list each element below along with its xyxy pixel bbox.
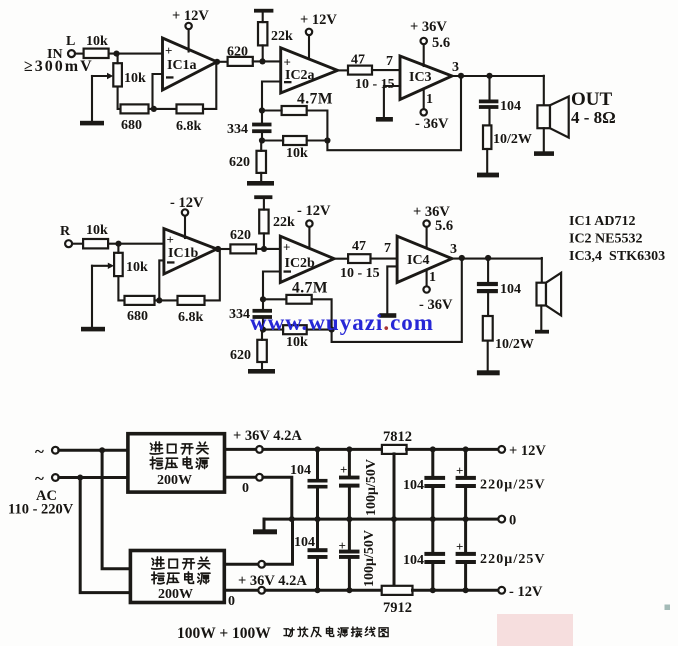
svg-text:620: 620 (227, 45, 248, 60)
node 680/6.8k junction R (156, 297, 162, 303)
svg-text:100W + 100W: 100W + 100W (177, 625, 271, 642)
capacitor 100u/50V (top) (339, 449, 379, 519)
resistor 680 (R) (125, 296, 155, 324)
ground (L pot wiper) (80, 121, 104, 126)
svg-text:5.6: 5.6 (432, 35, 450, 51)
ground (speaker R) (535, 330, 549, 334)
node 220u tap (12V) (463, 446, 469, 452)
svg-text:100μ/50V: 100μ/50V (364, 459, 379, 516)
svg-text:L: L (66, 34, 75, 49)
node R input junction (115, 241, 121, 247)
node IC3 output (458, 73, 464, 79)
terminal AC bottom (35, 469, 59, 488)
svg-text:OUT: OUT (571, 89, 613, 110)
node 680/6.8k junction (151, 106, 157, 112)
svg-text:- 12V: - 12V (509, 584, 543, 600)
svg-text:+ 36V 4.2A: + 36V 4.2A (233, 428, 302, 444)
node 100u joins -36 rail (346, 587, 352, 593)
node 620/22k junction R (261, 246, 267, 252)
ground (flipped, above 22k R) (254, 195, 272, 199)
wire PSU2 lower out (224, 589, 258, 592)
svg-text:IC1b: IC1b (168, 246, 199, 261)
wire (IC2b inverting input) (263, 272, 280, 300)
capacitor 104 (L zobel) (479, 76, 521, 126)
node L input junction (113, 51, 119, 57)
caption 100W+100W amplifier and power wiring diagram (177, 625, 388, 642)
svg-text:220μ/25V: 220μ/25V (480, 478, 546, 493)
svg-text:7912: 7912 (383, 600, 412, 616)
op-amp IC2b (280, 236, 334, 282)
power +12V (IC1a) (172, 8, 209, 52)
svg-text:~: ~ (35, 469, 44, 488)
node 100u tap (346, 446, 352, 452)
node PSU1-0 joins rail (289, 516, 295, 522)
svg-text:www.wuyazi.com: www.wuyazi.com (250, 310, 434, 335)
svg-text:10 - 15: 10 - 15 (355, 77, 395, 92)
capacitor 104 (-12V) (403, 519, 445, 590)
ground (IC4 pins 10-15) (379, 266, 397, 317)
svg-text:IC4: IC4 (407, 253, 430, 268)
node 220u (neg 12V) (463, 587, 469, 593)
resistor 10k (L lower feedback) (262, 136, 327, 161)
wire AC top branch down to PSU2 (102, 450, 130, 569)
wire output rail R (452, 258, 542, 260)
svg-text:IC3: IC3 (409, 70, 432, 85)
svg-text:10 - 15: 10 - 15 (340, 266, 380, 281)
svg-text:104: 104 (290, 463, 311, 478)
resistor 6.8k (L feedback) (176, 104, 203, 134)
terminal PSU2 upper (258, 561, 265, 568)
svg-text:+ 12V: + 12V (300, 12, 337, 28)
wire -36V rail (265, 589, 382, 592)
power -12V (IC2b) (297, 203, 331, 247)
power -12V (IC1b) (170, 195, 204, 238)
terminal AC top (35, 442, 59, 461)
svg-text:47: 47 (352, 239, 366, 254)
svg-text:+ 36V: + 36V (410, 19, 447, 35)
resistor 10k (R input) (83, 223, 108, 248)
terminal 0 (PSU1) (242, 474, 263, 496)
resistor 620 (L shunt) (229, 141, 266, 182)
power supply module PSU2 200W (130, 551, 224, 603)
svg-text:3: 3 (452, 60, 459, 75)
svg-text:10k: 10k (86, 34, 108, 49)
terminal +36V (PSU1) (256, 446, 263, 453)
svg-text:- 36V: - 36V (415, 116, 449, 132)
capacitor 334 (R) (229, 299, 272, 329)
ground (flipped, above 22k L) (254, 9, 273, 13)
node 220u joins rail (463, 516, 469, 522)
svg-text:6.8k: 6.8k (176, 119, 202, 134)
capacitor 220u/25V (+12V) (456, 449, 546, 519)
svg-text:+ 36V 4.2A: + 36V 4.2A (238, 573, 307, 589)
capacitor 104 (+12V) (403, 449, 445, 519)
terminal IN L (24, 34, 94, 75)
node zobel tap (486, 73, 492, 79)
svg-text:0: 0 (509, 513, 516, 529)
speaker OUT L (537, 76, 615, 152)
svg-text:+: + (167, 232, 174, 247)
svg-text:0: 0 (242, 481, 249, 496)
svg-text:7812: 7812 (383, 429, 412, 445)
op-amp IC3 (400, 56, 452, 100)
terminal -12V (498, 584, 543, 600)
svg-text:680: 680 (127, 309, 148, 324)
wire PSU1 0 out (225, 476, 257, 479)
svg-text:5.6: 5.6 (435, 218, 453, 234)
terminal R (60, 224, 72, 247)
resistor 680 (L) (121, 104, 149, 133)
resistor 10/2W (L zobel) (483, 125, 532, 172)
svg-text:1: 1 (426, 92, 433, 107)
speaker OUT R (537, 258, 562, 330)
wire 4.7M right lead (307, 111, 328, 141)
resistor 22k (L) (258, 12, 293, 62)
svg-text:334: 334 (229, 307, 250, 322)
svg-text:10/2W: 10/2W (493, 132, 532, 147)
node 334/10k R (260, 327, 266, 333)
wire L feedback from IC3 output (327, 76, 461, 150)
wire (IC1a inverting input) (153, 74, 163, 109)
svg-text:IC2a: IC2a (285, 68, 315, 83)
node inverting/4.7M R (260, 296, 266, 302)
wire IC2a out (338, 69, 348, 71)
wire (256, 248, 280, 250)
svg-text:0: 0 (228, 594, 235, 609)
label IC types (569, 214, 665, 264)
svg-text:104: 104 (500, 282, 521, 297)
wire AC bottom branch down to PSU2 (80, 478, 130, 593)
power +36V (IC3) (410, 19, 450, 66)
svg-text:10k: 10k (86, 223, 108, 238)
svg-text:+: + (339, 538, 346, 553)
svg-text:104: 104 (500, 99, 521, 114)
resistor 620 (R coupling) (230, 228, 256, 253)
wire output rail L (452, 75, 544, 77)
ground (R 620) (248, 369, 275, 374)
node IC1b output (215, 246, 221, 252)
svg-text:+ 12V: + 12V (509, 443, 546, 459)
resistor 4.7M (L) (282, 91, 333, 116)
capacitor 104 (R zobel) (477, 258, 521, 316)
svg-text:4.7M: 4.7M (292, 280, 328, 297)
resistor 22k (R) (259, 199, 295, 249)
ground (speaker L) (534, 151, 554, 156)
wire (IC1b inverting input) (159, 260, 164, 300)
wire (75, 53, 84, 55)
svg-text:+: + (456, 539, 463, 554)
resistor 4.7M (R) (286, 280, 328, 304)
wire pot wiper down (91, 76, 93, 121)
wire 4.7M right lead R (312, 299, 332, 329)
capacitor 334 (L) (227, 111, 272, 141)
capacitor 220u/25V (-12V) (456, 519, 546, 590)
ground (R pot wiper) (81, 327, 105, 332)
node 10k/4.7M/feedback (324, 137, 330, 143)
svg-text:- 12V: - 12V (170, 195, 204, 211)
svg-text:220μ/25V: 220μ/25V (480, 552, 546, 567)
wire R feedback from IC4 output (332, 258, 462, 342)
node 100u bottom (346, 516, 352, 522)
potentiometer 10k (R) (92, 244, 148, 301)
svg-text:620: 620 (230, 348, 251, 363)
op-amp IC4 (397, 236, 452, 282)
potentiometer 10k (L) (92, 54, 146, 109)
power +36V (IC4) (413, 204, 453, 248)
ground (IC3 pins 10-15) (376, 86, 400, 122)
wire (218, 248, 230, 250)
terminal PSU2 lower (228, 587, 265, 609)
wire PSU1 0 to mid rail (263, 477, 292, 519)
wire to IC3 pin 7 (372, 69, 400, 71)
svg-text:IC2 NE5532: IC2 NE5532 (569, 232, 643, 247)
wire (72, 243, 83, 245)
node 104 tap (315, 446, 321, 452)
power supply module PSU1 200W (128, 434, 225, 492)
wire (155, 299, 178, 301)
svg-text:7: 7 (386, 54, 393, 69)
node 10k/4.7M/feedback R (329, 327, 335, 333)
wire (253, 60, 281, 62)
node 104(12V) joins rail (430, 516, 436, 522)
wire -12V rail (413, 589, 499, 592)
resistor 10k (R lower feedback) (263, 325, 332, 350)
svg-text:4 - 8Ω: 4 - 8Ω (571, 108, 616, 127)
node AC bottom branch (77, 475, 83, 481)
node 104 tap (12V) (430, 446, 436, 452)
svg-text:200W: 200W (158, 587, 193, 602)
wire (149, 108, 177, 110)
node IC4 output (459, 255, 465, 261)
svg-text:+: + (456, 463, 463, 478)
wire 4.7M left lead (262, 109, 282, 111)
svg-text:IC1a: IC1a (167, 58, 197, 73)
power -36V (IC3 pin 1) (415, 89, 449, 133)
ground (L 620) (247, 181, 274, 186)
svg-text:+: + (283, 240, 290, 255)
svg-text:1: 1 (429, 270, 436, 285)
terminal 0 (right) (498, 513, 516, 529)
resistor 47 (L) (348, 53, 372, 75)
svg-text:IC1 AD712: IC1 AD712 (569, 214, 636, 229)
svg-text:10k: 10k (286, 146, 308, 161)
svg-text:~: ~ (35, 442, 44, 461)
terminal +12V (498, 443, 546, 459)
stray teal mark (665, 605, 671, 611)
svg-text:334: 334 (227, 122, 248, 137)
resistor 620 (L coupling) (227, 45, 253, 66)
svg-text:IC2b: IC2b (285, 256, 316, 271)
svg-text:10k: 10k (124, 71, 146, 86)
node 620/22k junction (259, 58, 265, 64)
node 104 (neg 12V) (430, 587, 436, 593)
svg-text:+: + (165, 43, 172, 58)
watermark remnant pink box (497, 614, 573, 646)
svg-text:620: 620 (230, 228, 251, 243)
node 104 joins -36 rail (315, 587, 321, 593)
wire IC2b out (334, 258, 348, 260)
capacitor 104 (36V bottom) (294, 519, 328, 590)
svg-text:110 - 220V: 110 - 220V (8, 502, 74, 518)
wire PSU2 upper to 0V rail (265, 519, 292, 564)
node zobel tap R (485, 255, 491, 261)
node 334/10k (259, 137, 265, 143)
wire PSU2 upper out (224, 563, 258, 566)
op-amp IC2a (281, 48, 338, 93)
svg-text:47: 47 (351, 53, 365, 68)
label AC 110-220V (8, 488, 74, 518)
svg-text:620: 620 (229, 155, 250, 170)
resistor 620 (R shunt) (230, 330, 267, 370)
wire 6.8k to IC1b output (205, 249, 220, 300)
wire +12V rail (407, 448, 499, 451)
wire AC bottom to PSU1 (59, 476, 128, 479)
svg-text:200W: 200W (157, 473, 192, 488)
regulator 7812 (382, 429, 412, 454)
power -36V (IC4 pin 1) (419, 270, 453, 313)
wire 6.8k to IC1a output (203, 62, 216, 109)
wire AC top to PSU1 (59, 449, 128, 452)
node IC1a output (214, 59, 220, 65)
node inverting/4.7M (259, 107, 265, 113)
resistor 47 (R) (348, 239, 370, 263)
svg-text:+: + (340, 462, 347, 477)
svg-text:10k: 10k (286, 335, 308, 350)
wire regulator ground pin (393, 454, 396, 586)
wire PSU1 +36V out (225, 448, 257, 451)
wire pot wiper down (91, 266, 93, 327)
svg-text:- 12V: - 12V (297, 203, 331, 219)
wire 4.7M left lead R (263, 298, 286, 300)
svg-text:100μ/50V: 100μ/50V (362, 530, 377, 587)
wire to IC4 pin 7 (371, 258, 398, 260)
power +12V (IC2a) (300, 12, 337, 58)
ground (L zobel) (477, 173, 499, 178)
svg-text:+ 12V: + 12V (172, 8, 209, 24)
svg-text:6.8k: 6.8k (178, 310, 204, 325)
ground (0V rail) (253, 519, 277, 534)
node 104 bottom (315, 516, 321, 522)
svg-text:3: 3 (450, 242, 457, 257)
wire +36V rail to 7812 (263, 448, 382, 451)
wire 0V mid rail (264, 518, 498, 521)
svg-text:≥300mV: ≥300mV (24, 58, 94, 75)
node AC top branch (99, 447, 105, 453)
resistor 6.8k (R feedback) (178, 296, 205, 325)
svg-text:680: 680 (121, 118, 142, 133)
wire (IC2a inverting input) (262, 82, 281, 111)
capacitor 100u/50V (bottom) (339, 519, 378, 590)
svg-text:22k: 22k (273, 215, 295, 230)
svg-text:104: 104 (294, 535, 315, 550)
svg-text:10/2W: 10/2W (495, 337, 534, 352)
svg-text:104: 104 (403, 553, 424, 568)
node reg gnd joins rail (391, 516, 397, 522)
op-amp IC1a (163, 38, 218, 90)
svg-text:22k: 22k (271, 29, 293, 44)
wire (108, 243, 164, 245)
ground (R zobel) (477, 370, 500, 375)
capacitor 104 (36V top) (290, 449, 328, 519)
svg-text:10k: 10k (126, 260, 148, 275)
resistor 10/2W (R zobel) (483, 316, 534, 370)
wire (109, 53, 163, 55)
wire (217, 61, 228, 63)
svg-text:4.7M: 4.7M (297, 91, 333, 108)
op-amp IC1b (164, 229, 217, 274)
resistor 10k (L input) (84, 34, 109, 58)
svg-text:R: R (60, 224, 71, 239)
regulator 7912 (382, 586, 413, 616)
svg-text:104: 104 (403, 478, 424, 493)
svg-text:7: 7 (384, 241, 391, 256)
svg-text:IC3,4 STK6303: IC3,4 STK6303 (569, 249, 665, 264)
